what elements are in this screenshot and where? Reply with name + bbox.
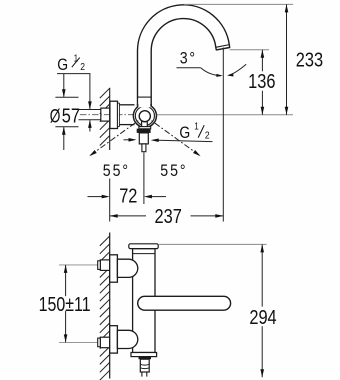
- svg-text:233: 233: [296, 48, 323, 71]
- top supply stub: [100, 260, 109, 271]
- 55deg swing dashed line right: [145, 116, 202, 158]
- G 1/2 leader arrows to stub: [88, 74, 92, 132]
- 3 degree label: [177, 50, 201, 68]
- dimension 150±11: [39, 265, 91, 343]
- dimension 237: [110, 204, 224, 227]
- outlet tube: [139, 133, 148, 144]
- check valve seams: [140, 363, 149, 366]
- connector pipe wall-to-valve: [119, 104, 134, 106]
- check valve legs: [141, 372, 143, 377]
- bottom supply stub: [100, 337, 109, 348]
- G 1/2 label (top left): [57, 53, 90, 75]
- 55deg swing dashed line left: [88, 116, 145, 158]
- riser collar joint: [138, 96, 152, 98]
- flange step: [118, 103, 120, 126]
- dimension 294: [249, 244, 276, 377]
- wall extension line down to 237 dimension: [109, 179, 111, 222]
- svg-text:3°: 3°: [180, 50, 197, 68]
- wall hatch (top drawing): [100, 88, 110, 145]
- body cylinder: [133, 249, 155, 353]
- wall line (top drawing): [109, 88, 111, 150]
- svg-text:Ø: Ø: [50, 105, 61, 127]
- svg-text:237: 237: [155, 204, 182, 227]
- escutcheon flange: [110, 101, 118, 128]
- outlet reference line: [230, 49, 269, 51]
- svg-text:1: 1: [194, 121, 199, 132]
- supply centerline bottom: [59, 341, 104, 343]
- valve outer circle: [133, 104, 156, 127]
- top escutcheon flange: [110, 255, 118, 282]
- handle stem: [142, 119, 148, 127]
- svg-text:55°: 55°: [103, 162, 130, 180]
- svg-text:G: G: [57, 56, 68, 74]
- aerator dark band: [137, 129, 151, 133]
- svg-text:2: 2: [205, 130, 210, 142]
- bottom cap: [131, 353, 157, 357]
- G 1/2 label (outlet): [179, 121, 209, 143]
- G 1/2 outlet arrows: [124, 138, 213, 142]
- check valve dark seal: [139, 357, 152, 359]
- bottom S-union: [117, 330, 137, 348]
- supply centerline top: [59, 264, 104, 266]
- bottom supply cap: [98, 338, 101, 347]
- middle reference line (valve center): [157, 114, 293, 116]
- supply stub extension lines: [79, 109, 102, 111]
- dimension 72: [88, 184, 167, 207]
- outlet inner tube: [142, 144, 146, 152]
- body seam top: [133, 253, 155, 255]
- svg-text:150±11: 150±11: [39, 292, 91, 315]
- check valve body: [140, 359, 149, 372]
- valve ring: [135, 106, 154, 125]
- valve cartridge circle: [139, 111, 150, 122]
- svg-text:2: 2: [80, 61, 85, 73]
- reference line from body top: [159, 243, 267, 245]
- riser covers circle tops: [138, 98, 150, 107]
- dia 57 dimension: [50, 74, 80, 150]
- top supply cap: [98, 261, 101, 270]
- svg-text:72: 72: [119, 184, 137, 207]
- svg-text:294: 294: [249, 305, 276, 328]
- stem collar: [139, 127, 151, 129]
- svg-text:G: G: [179, 124, 190, 142]
- bottom escutcheon flange: [110, 326, 118, 353]
- valve vertical centerline: [143, 153, 145, 205]
- spout outlet face inner line: [216, 45, 229, 48]
- supply stub (G 1/2 nipple): [101, 108, 110, 121]
- 3 degree arc arrows: [201, 64, 247, 77]
- top disc: [129, 244, 158, 249]
- spout tip centerline: [222, 48, 224, 222]
- handle lever pill: [138, 296, 231, 310]
- dimension 136: [248, 50, 275, 115]
- spout (gooseneck) silhouette: [138, 5, 230, 105]
- dimension 233: [285, 4, 323, 114]
- svg-text:136: 136: [248, 69, 275, 92]
- top S-union: [117, 259, 137, 277]
- top reference line: [184, 3, 293, 5]
- centerline through supply: [80, 114, 158, 116]
- svg-text:57: 57: [62, 104, 80, 127]
- wall line (bottom drawing): [109, 233, 111, 379]
- wall hatch (bottom drawing): [100, 236, 110, 380]
- svg-text:55°: 55°: [160, 162, 187, 180]
